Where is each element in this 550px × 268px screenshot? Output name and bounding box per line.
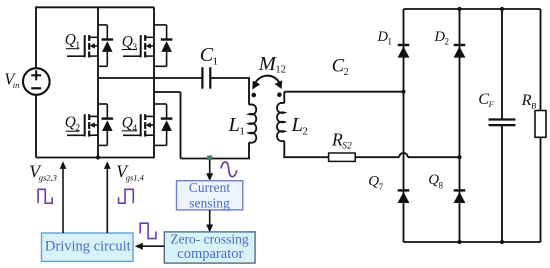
- svg-text:comparator: comparator: [177, 246, 243, 262]
- svg-text:Zero- crossing: Zero- crossing: [170, 232, 249, 247]
- svg-text:Driving circuit: Driving circuit: [45, 239, 131, 255]
- svg-text:sensing: sensing: [189, 195, 230, 210]
- svg-text:Current: Current: [189, 180, 230, 195]
